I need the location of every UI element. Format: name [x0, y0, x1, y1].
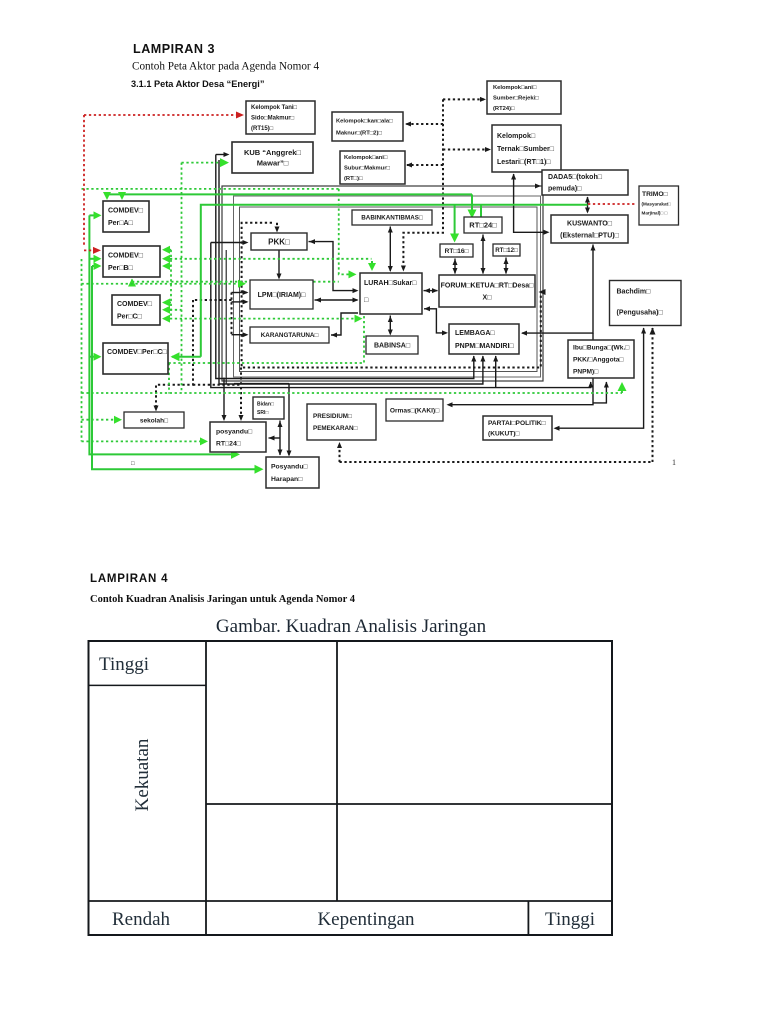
svg-text:PKK/□Anggota□: PKK/□Anggota□ [573, 356, 623, 363]
svg-text:Ibu□Bunga□(Wk.□: Ibu□Bunga□(Wk.□ [573, 344, 629, 351]
svg-text:LAMPIRAN 3: LAMPIRAN 3 [133, 42, 215, 56]
svg-text:SRI□: SRI□ [257, 410, 268, 416]
svg-text:Tinggi: Tinggi [99, 654, 149, 675]
svg-text:Maknur□(RT□2)□: Maknur□(RT□2)□ [336, 131, 382, 137]
svg-text:Per□B□: Per□B□ [108, 265, 134, 272]
svg-text:Lestari□(RT□1)□: Lestari□(RT□1)□ [497, 159, 551, 166]
svg-text:(RT24)□: (RT24)□ [493, 106, 515, 112]
svg-text:Tinggi: Tinggi [545, 909, 595, 930]
svg-text:Harapan□: Harapan□ [271, 476, 302, 483]
svg-text:DADA5□(tokoh□: DADA5□(tokoh□ [548, 174, 603, 181]
svg-text:Kelompok□kan□ala□: Kelompok□kan□ala□ [336, 119, 393, 125]
svg-text:Kekuatan: Kekuatan [132, 738, 153, 811]
svg-text:KUB “Anggrek□: KUB “Anggrek□ [244, 148, 302, 157]
svg-text:PARTAI□POLITIK□: PARTAI□POLITIK□ [488, 420, 546, 427]
svg-text:KUSWANTO□: KUSWANTO□ [567, 220, 613, 227]
svg-text:COMDEV□: COMDEV□ [108, 253, 144, 260]
svg-text:sekolah□: sekolah□ [140, 417, 168, 424]
svg-text:Contoh Peta Aktor pada Agenda: Contoh Peta Aktor pada Agenda Nomor 4 [132, 61, 319, 73]
svg-text:(RT□)□: (RT□)□ [344, 176, 363, 182]
svg-text:Gambar. Kuadran Analisis Jarin: Gambar. Kuadran Analisis Jaringan [216, 616, 487, 637]
svg-text:LURAH□Sukar□: LURAH□Sukar□ [364, 280, 417, 287]
svg-text:posyandu□: posyandu□ [216, 428, 252, 435]
svg-text:Posyandu□: Posyandu□ [271, 464, 308, 471]
svg-text:Kelompok□: Kelompok□ [497, 133, 536, 140]
svg-text:COMDEV□Per□C□: COMDEV□Per□C□ [107, 349, 168, 356]
svg-text:(RT15)□: (RT15)□ [251, 126, 274, 132]
svg-text:(Masyarakat□: (Masyarakat□ [642, 202, 672, 207]
svg-text:PNPM)□: PNPM)□ [573, 368, 598, 375]
svg-text:PKK□: PKK□ [268, 237, 290, 246]
svg-text:RT□16□: RT□16□ [445, 248, 469, 255]
svg-text:pemuda)□: pemuda)□ [548, 186, 582, 193]
svg-text:RT□24□: RT□24□ [469, 221, 497, 230]
svg-text:BABINKANTIBMAS□: BABINKANTIBMAS□ [361, 215, 423, 222]
svg-text:PNPM□MANDIRI□: PNPM□MANDIRI□ [455, 343, 514, 350]
svg-text:1: 1 [672, 458, 676, 467]
svg-text:Per□A□: Per□A□ [108, 220, 134, 227]
svg-text:3.1.1 Peta Aktor Desa “Energi”: 3.1.1 Peta Aktor Desa “Energi” [131, 79, 264, 89]
svg-text:BABINSA□: BABINSA□ [374, 342, 411, 349]
svg-text:Sido□Makmur□: Sido□Makmur□ [251, 116, 295, 122]
svg-text:X□: X□ [483, 294, 493, 301]
svg-text:Kelompok Tani□: Kelompok Tani□ [251, 105, 298, 111]
svg-text:□: □ [131, 461, 135, 467]
svg-text:FORUM□KETUA□RT□Desa□: FORUM□KETUA□RT□Desa□ [441, 282, 535, 289]
svg-text:KARANGTARUNA□: KARANGTARUNA□ [261, 332, 319, 339]
svg-text:PEMEKARAN□: PEMEKARAN□ [313, 425, 358, 432]
svg-text:Contoh Kuadran Analisis Jaring: Contoh Kuadran Analisis Jaringan untuk A… [90, 594, 356, 605]
svg-text:Per□C□: Per□C□ [117, 314, 143, 321]
svg-text:Bidan□: Bidan□ [257, 402, 274, 408]
svg-text:LEMBAGA□: LEMBAGA□ [455, 330, 495, 337]
svg-text:Ormas□(KAKI)□: Ormas□(KAKI)□ [390, 407, 439, 414]
svg-text:Marjinal)□ □: Marjinal)□ □ [642, 211, 668, 216]
svg-text:LPM□(IRIAM)□: LPM□(IRIAM)□ [258, 292, 306, 299]
svg-text:Kelompok□ani□: Kelompok□ani□ [493, 85, 537, 91]
svg-text:(Eksternal□PTU)□: (Eksternal□PTU)□ [560, 232, 619, 239]
svg-text:TRIMO□: TRIMO□ [642, 191, 668, 198]
svg-text:RT□24□: RT□24□ [216, 440, 241, 447]
svg-text:(Pengusaha)□: (Pengusaha)□ [617, 310, 664, 317]
svg-text:Kepentingan: Kepentingan [317, 909, 415, 930]
svg-text:Ternak□Sumber□: Ternak□Sumber□ [497, 146, 555, 153]
svg-text:LAMPIRAN 4: LAMPIRAN 4 [90, 573, 168, 585]
svg-text:RT□12□: RT□12□ [495, 247, 518, 254]
svg-text:Rendah: Rendah [112, 909, 171, 930]
svg-text:Bachdim□: Bachdim□ [617, 289, 652, 296]
svg-text:PRESIDIUM□: PRESIDIUM□ [313, 413, 352, 420]
svg-text:COMDEV□: COMDEV□ [117, 301, 153, 308]
svg-text:Sumber□Rejeki□: Sumber□Rejeki□ [493, 96, 539, 102]
svg-text:Mawar”□: Mawar”□ [257, 158, 289, 167]
svg-text:Kelompok□ani□: Kelompok□ani□ [344, 155, 388, 161]
svg-text:Subur□Makmur□: Subur□Makmur□ [344, 166, 390, 172]
svg-text:COMDEV□: COMDEV□ [108, 208, 144, 215]
svg-text:(KUKUT)□: (KUKUT)□ [488, 431, 519, 438]
